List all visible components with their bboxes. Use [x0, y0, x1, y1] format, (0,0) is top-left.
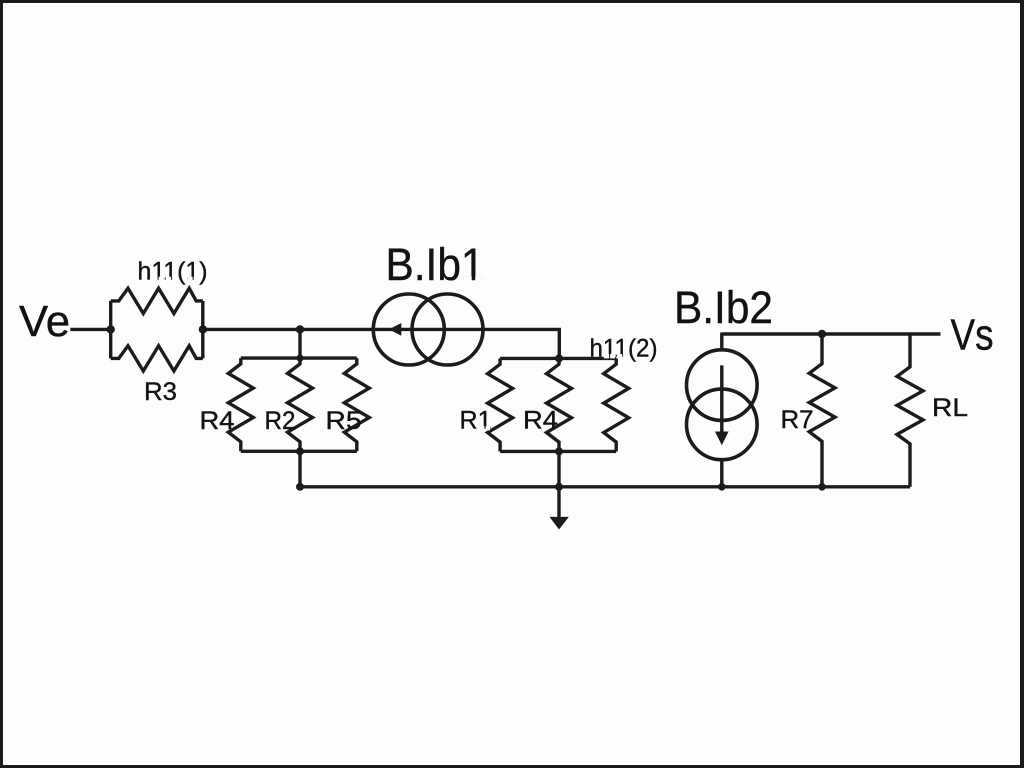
svg-text:R4: R4 [523, 407, 558, 435]
svg-text:B.Ib2: B.Ib2 [674, 282, 773, 333]
svg-text:h11(1): h11(1) [138, 257, 208, 285]
svg-text:R3: R3 [144, 378, 177, 406]
svg-text:Ve: Ve [19, 297, 70, 346]
svg-text:R2: R2 [265, 407, 296, 435]
svg-text:Vs: Vs [951, 311, 994, 360]
svg-text:R4: R4 [200, 407, 235, 435]
svg-text:B.Ib1: B.Ib1 [386, 239, 485, 290]
svg-text:R7: R7 [781, 406, 814, 434]
svg-text:RL: RL [932, 394, 968, 422]
svg-text:R5: R5 [326, 407, 362, 435]
